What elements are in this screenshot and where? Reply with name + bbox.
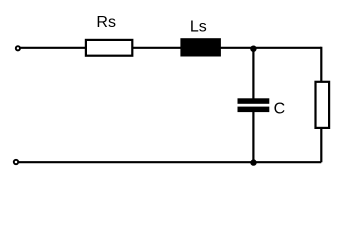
svg-text:Rs: Rs [96, 14, 116, 31]
svg-text:Ls: Ls [190, 18, 207, 35]
svg-text:C: C [274, 101, 286, 118]
